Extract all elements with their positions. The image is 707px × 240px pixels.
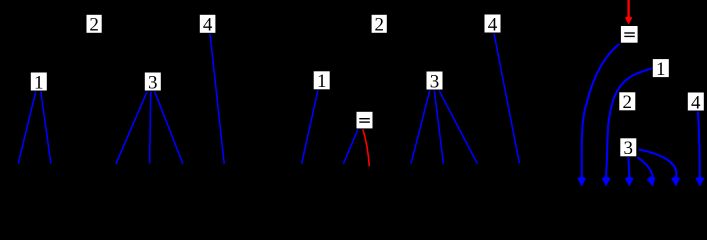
node 3 box	[426, 71, 443, 92]
wire from node 3 to word a	[411, 90, 430, 163]
wire from node = to word (red)	[363, 129, 369, 166]
arrowhead position 6	[695, 176, 704, 187]
node 2 box	[86, 14, 102, 35]
node = box	[356, 111, 373, 129]
svg-text:3: 3	[148, 72, 158, 93]
red arrow into =	[625, 0, 632, 24]
node 1 box	[652, 59, 669, 80]
node 4 box	[199, 14, 216, 35]
svg-text:2: 2	[89, 15, 99, 36]
svg-text:4: 4	[488, 14, 498, 35]
wire from node 3 to word c	[439, 90, 477, 163]
node 2 box	[371, 14, 387, 35]
node 4 box	[484, 14, 501, 35]
wire from node 1 to word 2	[41, 91, 51, 164]
node 3 box	[144, 72, 161, 93]
svg-text:3: 3	[430, 71, 440, 92]
curve from 3 to position 4	[637, 157, 653, 178]
svg-text:1: 1	[34, 72, 44, 93]
svg-text:1: 1	[317, 71, 327, 92]
node 2 box	[619, 92, 636, 113]
node 4 box	[687, 92, 704, 113]
arrowhead position 5	[671, 176, 681, 187]
svg-text:2: 2	[374, 15, 384, 36]
wire from node 3 to word 6	[155, 91, 183, 164]
node 3 box	[620, 138, 637, 159]
curve from 4 to position 6	[698, 111, 700, 178]
node 1 box	[30, 72, 47, 93]
arrowhead position 4	[646, 175, 657, 187]
svg-text:3: 3	[624, 138, 634, 159]
node 1 box	[313, 71, 330, 92]
wire from node 3 to word 4	[116, 91, 148, 164]
curve from 3 to position 5	[639, 149, 677, 177]
wire from node 4 to word	[494, 33, 519, 163]
node = box	[620, 26, 638, 44]
arrowhead position 1	[577, 176, 586, 187]
arrowhead position 3	[625, 176, 634, 187]
svg-text:2: 2	[623, 92, 633, 113]
wire from node 1 to word	[302, 90, 318, 164]
wire from node 3 to word 5	[150, 91, 151, 163]
wire from node 3 to word b	[434, 90, 443, 164]
svg-text:4: 4	[691, 92, 701, 113]
svg-text:4: 4	[203, 15, 213, 36]
curve from 1 to position 2	[606, 68, 652, 177]
svg-text:1: 1	[656, 59, 666, 80]
wire from node 1 to word 1	[18, 91, 36, 164]
arrowhead position 2	[602, 176, 611, 187]
wire from node 4 to word 7	[210, 34, 224, 165]
line from 3 to position 3	[627, 157, 630, 178]
wire from node = to word (blue)	[343, 129, 358, 164]
curve from = to position 1	[582, 44, 620, 178]
